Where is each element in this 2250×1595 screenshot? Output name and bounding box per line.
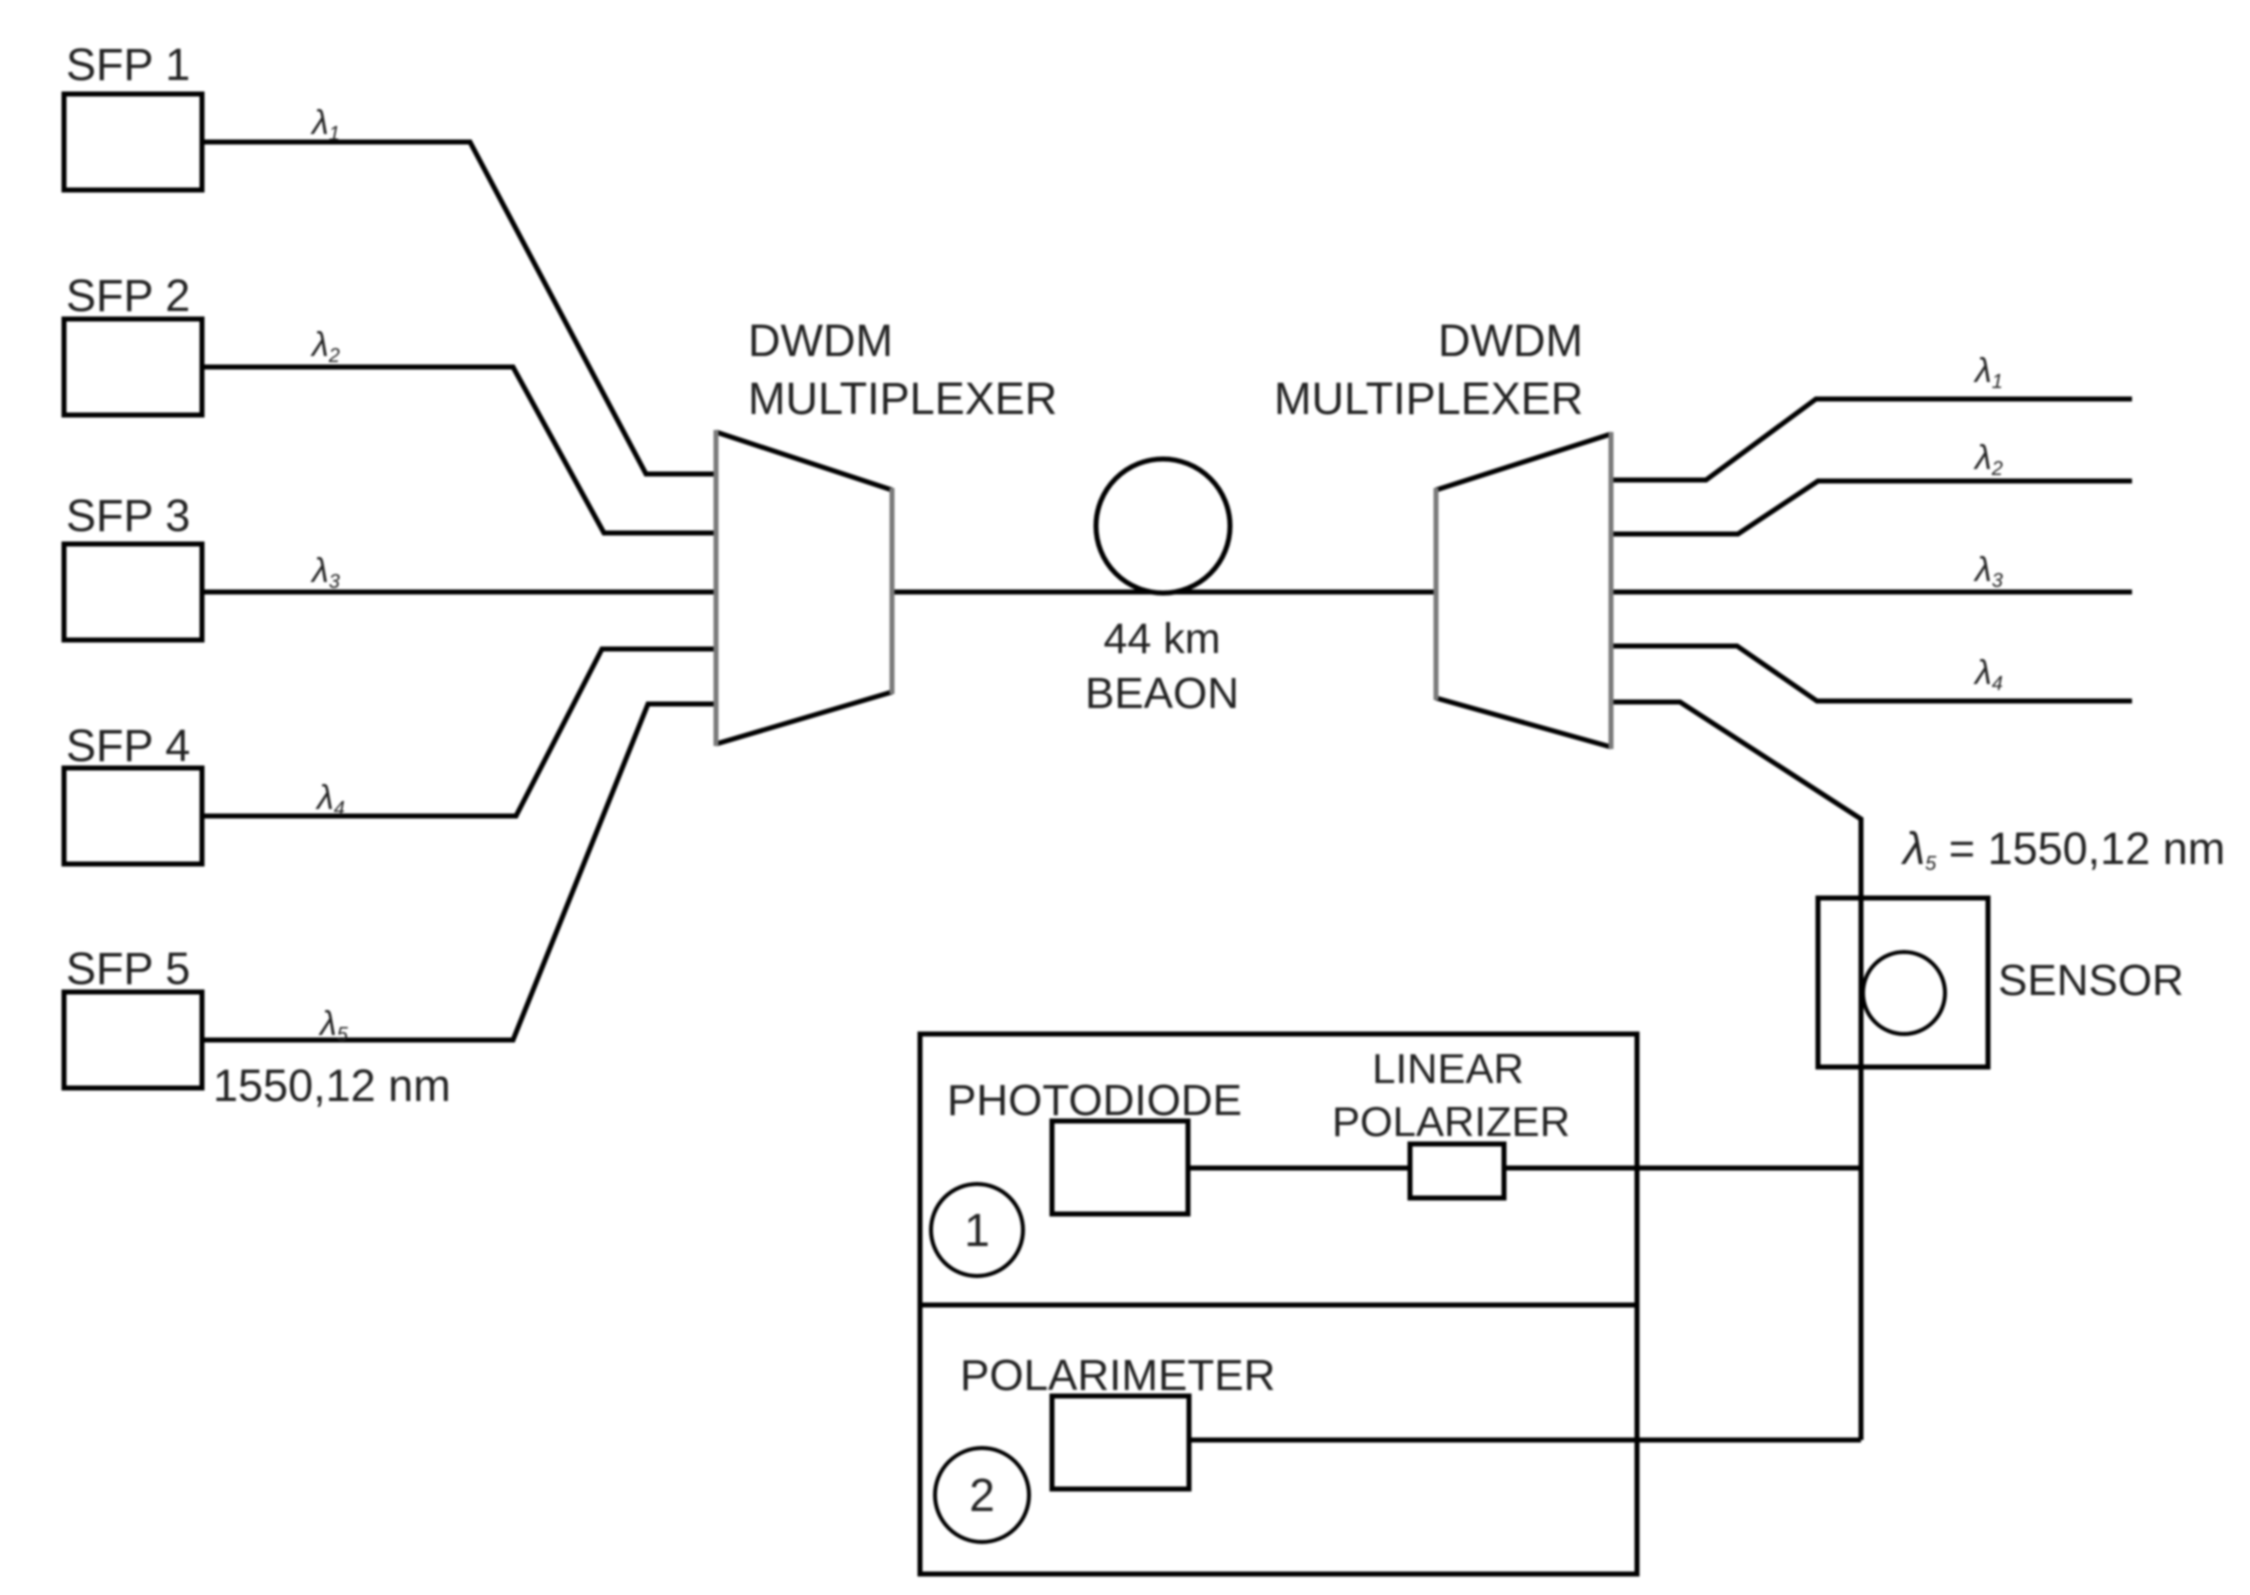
- svg-text:DWDM: DWDM: [748, 315, 893, 366]
- svg-text:λ2: λ2: [1973, 439, 2003, 480]
- svg-text:SFP 1: SFP 1: [66, 39, 190, 90]
- svg-text:2: 2: [969, 1469, 995, 1521]
- svg-text:PHOTODIODE: PHOTODIODE: [947, 1076, 1242, 1125]
- svg-text:SFP 4: SFP 4: [66, 720, 190, 771]
- svg-text:LINEAR: LINEAR: [1372, 1045, 1524, 1092]
- svg-text:λ1: λ1: [310, 104, 340, 145]
- svg-text:λ1: λ1: [1973, 352, 2003, 393]
- svg-text:λ4: λ4: [315, 779, 345, 820]
- svg-text:DWDM: DWDM: [1438, 315, 1583, 366]
- svg-text:1550,12 nm: 1550,12 nm: [213, 1060, 451, 1111]
- svg-text:MULTIPLEXER: MULTIPLEXER: [1274, 373, 1583, 424]
- svg-text:λ5: λ5: [318, 1005, 349, 1046]
- svg-text:POLARIMETER: POLARIMETER: [960, 1351, 1275, 1400]
- svg-text:1: 1: [964, 1204, 990, 1256]
- svg-text:SFP 3: SFP 3: [66, 490, 190, 541]
- svg-text:POLARIZER: POLARIZER: [1332, 1098, 1570, 1145]
- svg-text:SENSOR: SENSOR: [1998, 956, 2184, 1005]
- svg-text:MULTIPLEXER: MULTIPLEXER: [748, 373, 1057, 424]
- svg-text:BEAON: BEAON: [1085, 669, 1239, 718]
- svg-text:44 km: 44 km: [1103, 615, 1220, 663]
- svg-text:λ4: λ4: [1973, 654, 2003, 695]
- svg-text:λ2: λ2: [310, 326, 340, 367]
- svg-text:λ3: λ3: [1973, 551, 2003, 592]
- svg-text:λ5 = 1550,12 nm: λ5 = 1550,12 nm: [1900, 823, 2225, 875]
- svg-text:SFP 5: SFP 5: [66, 943, 190, 994]
- svg-text:λ3: λ3: [310, 552, 340, 593]
- svg-text:SFP 2: SFP 2: [66, 270, 190, 321]
